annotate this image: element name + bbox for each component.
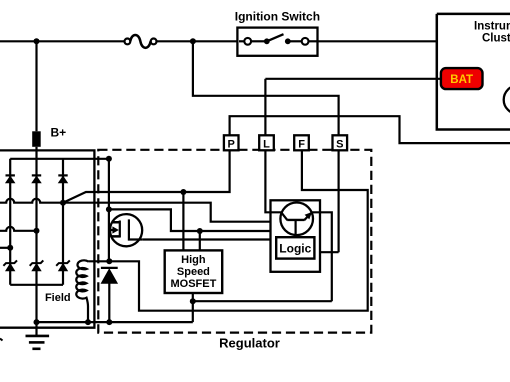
svg-text:S: S [336,139,343,151]
node phase sense junction [180,189,186,195]
stator phase B bus [0,227,37,231]
svg-text:Field: Field [45,292,71,304]
logic module box [271,200,321,271]
driver High Speed MOSFET U2 [165,250,223,293]
transistor Q1 power MOSFET [110,214,143,246]
svg-text:Speed: Speed [177,266,210,278]
stator phase A bus [0,199,63,203]
wire sense net tie [320,251,339,253]
svg-text:F: F [298,139,305,151]
terminal BAT [441,68,483,89]
wire phase A to P terminal [63,150,230,202]
svg-text:B+: B+ [51,126,67,140]
node phase A junction [60,200,66,206]
wire gate rail to logic [109,209,272,231]
wire S sense line [193,41,339,135]
node B+ bus to regulator [106,156,112,162]
wire P terminal to tachometer [230,116,510,143]
wire mosfet source to logic [142,238,271,240]
wire phase sense to mosfet driver [182,192,184,250]
terminal P [224,135,239,150]
node phase C junction [7,245,13,251]
wire fuse to ignition switch [157,40,238,42]
wire transistor emitter to S net [312,212,332,301]
wire fusible link to rectifier bus [35,147,37,159]
wire L terminal drop [264,79,266,136]
alternator housing [0,150,94,327]
avalanche diode D5 [30,260,44,270]
node battery junction [34,38,40,44]
rectifier leg 1 [9,159,11,285]
stray mark cut text [0,339,3,341]
rectifier leg 3 [62,159,64,285]
svg-text:High: High [181,254,206,266]
svg-text:Ignition Switch: Ignition Switch [235,10,320,24]
wire rectifier to ground [35,285,37,336]
svg-text:L: L [263,139,270,151]
diode D1 [6,175,15,182]
indicator lamp (cut off) [504,86,510,114]
wire ignition switch to instrument cluster [318,40,437,42]
diode D7 flyback [101,268,118,283]
node S-tap junction [190,38,196,44]
wire driver to ground bus [192,293,194,322]
rectifier leg 2 [35,159,37,285]
wire ground bus [37,321,193,323]
svg-text:MOSFET: MOSFET [170,278,216,290]
wire S terminal drop [338,150,340,252]
node gate rail junction [106,206,112,212]
inductor field coil [76,260,88,322]
wire gate drive to mosfet driver [199,231,201,250]
wire BAT to L terminal [265,78,441,80]
wire rectifier B+ bus [10,158,109,160]
instrument cluster box [437,14,510,130]
avalanche diode D4 [3,260,17,270]
wire regulator B+ rail [108,159,110,261]
diode D3 [58,175,67,182]
node ground junction 1 [34,319,40,325]
svg-text:BAT: BAT [450,74,473,86]
fusible link B+ [32,131,41,147]
logic block U3 [276,237,314,258]
regulator enclosure (dashed) [98,150,371,333]
wire flyback diode to ground bus [108,284,110,323]
ground [26,336,50,349]
svg-text:Cluster: Cluster [482,33,510,45]
wire battery feed top-left [0,40,124,42]
transistor Q2 [280,203,313,238]
wire rectifier bottom bus [10,284,63,286]
svg-text:P: P [228,139,235,151]
node phase B junction [34,228,40,234]
terminal L [259,135,274,150]
wire B+ drop to fusible link [35,41,37,131]
terminal S [333,135,348,150]
wire F terminal to field node [109,150,367,310]
node ground junction 2 [85,319,91,325]
node ground junction 3 [106,319,112,325]
terminal F [294,135,309,150]
svg-text:Instrument: Instrument [474,20,510,32]
node gate drive junction [197,228,203,234]
svg-text:Logic: Logic [279,242,311,256]
stator phase C bus [0,247,10,249]
avalanche diode D6 [56,260,70,270]
svg-text:Regulator: Regulator [219,336,280,351]
wire field node [88,260,109,262]
ignition switch SW1 [237,28,317,56]
node field top junction [106,258,112,264]
node driver output junction [190,298,196,304]
wire driver output to sense net [193,300,332,302]
fuse F1 [125,35,157,48]
wire L terminal to transistor collector [265,150,281,212]
diode D2 [32,175,41,182]
wire phase A to comparator [63,203,271,222]
